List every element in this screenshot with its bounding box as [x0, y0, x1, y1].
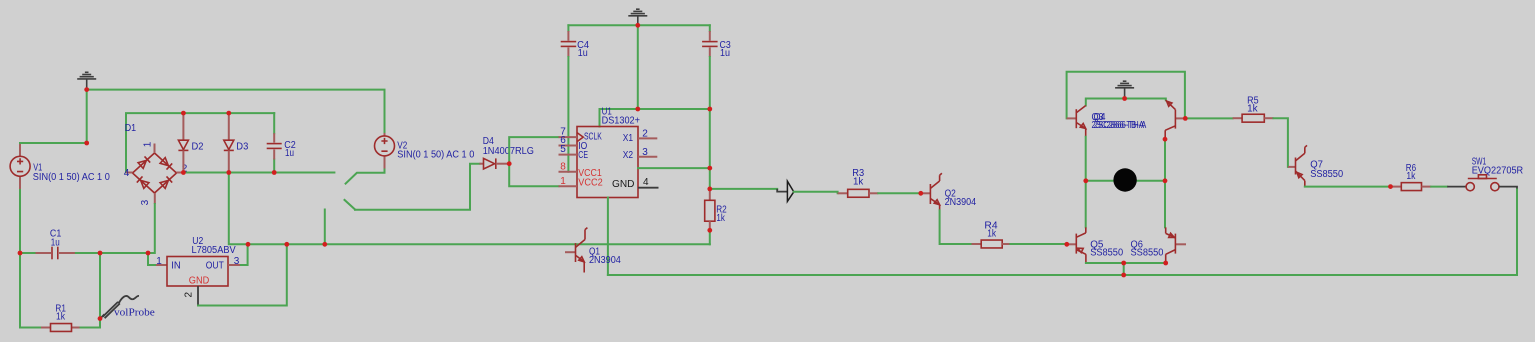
svg-text:1u: 1u	[51, 237, 60, 248]
wire H-bridge inner rail	[1086, 99, 1166, 106]
wire U1 bottom column	[607, 198, 609, 276]
svg-text:VCC2: VCC2	[578, 177, 603, 188]
svg-text:1k: 1k	[853, 177, 864, 188]
node Q2 base	[918, 191, 923, 196]
svg-text:SS8550: SS8550	[1131, 247, 1164, 258]
transistor Q5 SS8550	[1067, 243, 1077, 245]
svg-text:SS8550: SS8550	[1310, 169, 1343, 180]
svg-text:4: 4	[643, 177, 649, 188]
node Q5 base	[1064, 242, 1069, 247]
node V1 top corner	[84, 141, 89, 146]
wire R2 to rail	[709, 230, 711, 244]
diode D2	[182, 113, 184, 140]
node motor left	[1083, 178, 1088, 183]
ground symbol (clock filter)	[636, 8, 640, 10]
wire U2 gnd	[197, 286, 199, 306]
node D2 top	[181, 111, 186, 116]
source V2	[384, 133, 386, 136]
node switch branch	[322, 242, 327, 247]
wire R6 to SW1	[1431, 186, 1447, 188]
resistor R6	[1391, 186, 1402, 188]
svg-text:OUT: OUT	[206, 260, 224, 271]
switch SW1 EVQ22705R	[1447, 186, 1466, 188]
svg-text:1u: 1u	[285, 148, 294, 159]
svg-text:L7805ABV: L7805ABV	[192, 245, 236, 256]
svg-text:2: 2	[184, 292, 195, 298]
svg-text:1k: 1k	[716, 213, 725, 224]
wire R1 right / probe column	[81, 253, 101, 328]
regulator U2 L7805ABV	[156, 264, 167, 266]
svg-text:1k: 1k	[56, 312, 66, 323]
node pin2/D2 bottom	[181, 170, 186, 175]
capacitor C3	[709, 25, 711, 31]
wire U2 pin1	[148, 253, 156, 265]
wire Q7 emitter to R6	[1305, 186, 1391, 188]
svg-text:D2: D2	[192, 141, 204, 152]
wire to D4	[355, 164, 480, 210]
capacitor C2	[273, 113, 275, 172]
svg-text:D1: D1	[125, 123, 137, 134]
capacitor C1	[36, 252, 52, 254]
node Q4 emitter	[1163, 137, 1168, 142]
wire top rail to V2	[87, 90, 385, 133]
svg-text:1k: 1k	[1247, 103, 1258, 114]
node emitter right	[1163, 261, 1168, 266]
node R6 left	[1388, 184, 1393, 189]
svg-text:3: 3	[140, 199, 151, 205]
svg-text:1k: 1k	[987, 228, 997, 239]
wire AC rail from pin2	[183, 172, 334, 174]
node R2 top	[707, 187, 712, 192]
wire motor row	[1086, 180, 1165, 182]
node D3 bottom	[226, 170, 231, 175]
svg-text:DS1302+: DS1302+	[602, 115, 641, 126]
node C2 bottom	[272, 170, 277, 175]
wire R4 to Q5	[1010, 243, 1066, 245]
transistor Q1 2N3904	[565, 251, 576, 253]
resistor R3	[838, 192, 848, 194]
svg-text:8: 8	[560, 161, 566, 172]
wire gnd column	[637, 25, 639, 109]
svg-text:1: 1	[156, 256, 162, 267]
node bottom rail junction	[1121, 273, 1126, 278]
svg-text:1k: 1k	[1406, 171, 1416, 182]
transistor Q4	[1175, 117, 1185, 119]
node U2 out	[246, 242, 251, 247]
wire C3 column	[709, 57, 711, 189]
wire C1 rail	[20, 252, 148, 254]
resistor R5	[1233, 117, 1243, 119]
node C3 column	[707, 107, 712, 112]
svg-text:D3: D3	[236, 141, 248, 152]
node inner rail ground	[1122, 96, 1127, 101]
svg-text:2N3904: 2N3904	[589, 255, 621, 266]
resistor R4	[972, 243, 982, 245]
source V1	[19, 144, 21, 156]
svg-text:2: 2	[642, 128, 648, 139]
wire V1 bottom	[19, 190, 21, 253]
svg-text:SS8550: SS8550	[1090, 247, 1123, 258]
ground symbol (H-bridge)	[1123, 80, 1127, 82]
wire switch branch column	[324, 210, 326, 245]
bridge pin stubs	[154, 144, 156, 154]
svg-text:4: 4	[124, 168, 130, 179]
wire buffer to R3	[794, 192, 838, 194]
wire U1 right to R2	[638, 167, 710, 169]
resistor R2	[709, 189, 711, 200]
wire cap rail	[568, 24, 709, 26]
svg-text:volProbe: volProbe	[114, 307, 155, 318]
buffer symbol	[777, 189, 787, 192]
node gnd column	[635, 107, 640, 112]
svg-text:1: 1	[143, 141, 154, 147]
wire regulated rail	[229, 173, 710, 245]
svg-text:2N3904: 2N3904	[945, 197, 977, 208]
svg-text:X1: X1	[623, 133, 634, 144]
node D3 top	[226, 111, 231, 116]
capacitor C4	[567, 25, 569, 31]
diode D3	[228, 113, 230, 140]
node motor right	[1163, 178, 1168, 183]
svg-text:SIN(0 1 50) AC 1 0: SIN(0 1 50) AC 1 0	[397, 149, 474, 160]
wire R3 to Q2	[878, 192, 921, 194]
switch blade upper	[346, 169, 385, 184]
wire R2 to buffer	[710, 188, 777, 190]
svg-text:EVQ22705R: EVQ22705R	[1472, 166, 1524, 177]
node ground junction	[84, 87, 89, 92]
node volProbe tip	[98, 316, 103, 321]
svg-text:1: 1	[560, 176, 566, 187]
svg-text:5: 5	[560, 144, 566, 155]
svg-text:CE: CE	[578, 150, 588, 161]
transistor Q3	[1067, 117, 1077, 119]
wire R1 loop	[20, 253, 41, 328]
wire motor left column	[1085, 137, 1087, 228]
wire long bottom rail	[608, 274, 1517, 276]
wire bridge top rail	[126, 113, 274, 172]
node U2 input junction	[146, 251, 151, 256]
transistor Q6 SS8550	[1175, 243, 1186, 245]
wire U2 pin3	[228, 264, 241, 266]
node Q4 base rail	[1183, 116, 1188, 121]
node R2 bottom	[707, 228, 712, 233]
svg-text:SIN(0 1 50) AC 1 0: SIN(0 1 50) AC 1 0	[33, 172, 110, 183]
IC U1 DS1302+	[577, 127, 638, 198]
motor	[1113, 168, 1136, 191]
probe volProbe	[101, 314, 105, 318]
svg-text:GND: GND	[189, 276, 210, 287]
bridge rectifier D1	[133, 153, 177, 193]
diode D4 1N4007RLG	[480, 163, 484, 165]
resistor R1	[41, 327, 51, 329]
wire emitter rail	[1086, 262, 1166, 264]
svg-text:2SC2866-TH-A: 2SC2866-TH-A	[1094, 120, 1147, 131]
svg-text:IN: IN	[171, 260, 181, 271]
wire bridge bottom to U2	[148, 204, 155, 253]
node cap rail ground	[635, 23, 640, 28]
wire SW1 to bottom rail	[1516, 190, 1518, 276]
wire R5 to Q7	[1274, 118, 1288, 167]
wire U1 top net	[600, 109, 710, 127]
transistor Q7 SS8550	[1288, 166, 1296, 168]
svg-text:3: 3	[642, 147, 648, 158]
wire V1 top branch	[20, 90, 87, 143]
wire D4 to U1	[509, 137, 558, 186]
wire Q4 base to R5	[1185, 117, 1232, 119]
node R2 column top	[707, 166, 712, 171]
node probe column top	[98, 251, 103, 256]
wire Q2 emitter to R4	[940, 210, 972, 244]
node U2 gnd rail	[284, 242, 289, 247]
ground symbol (input stage)	[85, 71, 89, 73]
wire emitter to bottom rail	[1123, 263, 1125, 275]
svg-text:GND: GND	[612, 179, 635, 190]
switch blade lower	[345, 200, 356, 210]
transistor Q2 2N3904	[921, 192, 931, 194]
svg-text:1u: 1u	[720, 48, 730, 59]
svg-text:X2: X2	[623, 150, 634, 161]
node emitter mid	[1121, 261, 1126, 266]
wire motor right column	[1164, 139, 1166, 227]
node D4 cathode	[507, 161, 512, 166]
svg-text:1u: 1u	[578, 48, 588, 59]
wire C4 to VCC1	[567, 57, 569, 172]
wire H-bridge outer loop	[1067, 72, 1185, 119]
node C1 left	[18, 251, 23, 256]
